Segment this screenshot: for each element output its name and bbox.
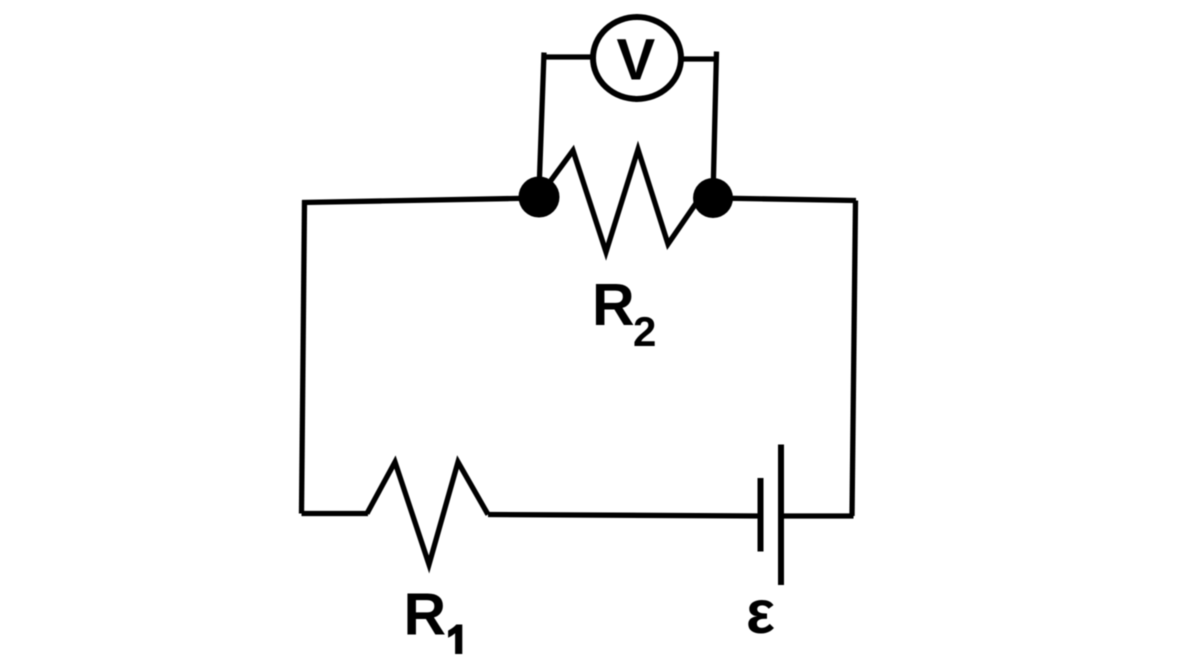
wire voltmeter left vertical xyxy=(539,53,544,198)
wire bottom-left horizontal xyxy=(302,511,369,516)
svg-text:2: 2 xyxy=(633,308,656,355)
resistor R1 xyxy=(367,462,488,565)
label R1 subscript 1 xyxy=(448,625,462,655)
node right junction dot xyxy=(693,178,733,218)
resistor R2 xyxy=(538,150,700,253)
battery cell short plate (negative) xyxy=(758,478,764,552)
wire bottom-right horizontal xyxy=(781,513,854,518)
node left junction dot xyxy=(519,177,560,218)
svg-text:R: R xyxy=(404,582,447,648)
wire voltmeter left lead xyxy=(544,54,595,59)
wire right vertical xyxy=(852,201,856,517)
wire voltmeter right lead xyxy=(680,56,719,61)
wire top-left horizontal xyxy=(302,198,540,203)
battery cell long plate (positive) xyxy=(778,445,784,586)
svg-text:R: R xyxy=(592,272,635,338)
wire left vertical xyxy=(302,201,305,514)
wire top-right horizontal xyxy=(713,198,856,201)
voltmeter U1 circle xyxy=(593,17,681,99)
svg-text:V: V xyxy=(617,28,656,93)
wire voltmeter right vertical xyxy=(713,52,717,198)
svg-text:ε: ε xyxy=(746,578,775,646)
wire bottom-middle horizontal xyxy=(488,515,761,517)
